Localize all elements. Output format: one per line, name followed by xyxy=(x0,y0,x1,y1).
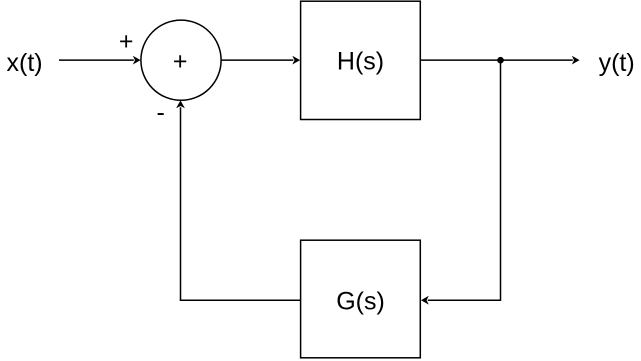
node output junction xyxy=(497,57,504,64)
output label y(t) xyxy=(599,49,635,77)
wire H(s) to output y(t) xyxy=(420,56,579,65)
wire feedback into G(s) xyxy=(421,296,501,305)
block H1 H(s) xyxy=(301,1,421,119)
block G1 G(s) xyxy=(301,240,421,358)
wire output node down xyxy=(500,60,502,301)
minus sign at feedback input xyxy=(157,98,165,126)
wire summer to H(s) xyxy=(221,56,300,65)
summing junction xyxy=(141,20,221,100)
wire G(s) to left xyxy=(180,299,301,301)
svg-text:y(t): y(t) xyxy=(599,49,635,77)
plus sign inside summer xyxy=(173,48,188,76)
svg-text:-: - xyxy=(157,98,165,126)
svg-text:+: + xyxy=(173,48,188,76)
svg-text:H(s): H(s) xyxy=(337,47,384,75)
wire x(t) to summer xyxy=(59,56,141,65)
plus sign at summer input xyxy=(119,28,134,56)
wire up to summer feedback input xyxy=(176,100,185,300)
input label x(t) xyxy=(7,49,43,77)
svg-text:+: + xyxy=(119,28,134,56)
svg-text:x(t): x(t) xyxy=(7,49,43,77)
svg-text:G(s): G(s) xyxy=(336,287,385,315)
